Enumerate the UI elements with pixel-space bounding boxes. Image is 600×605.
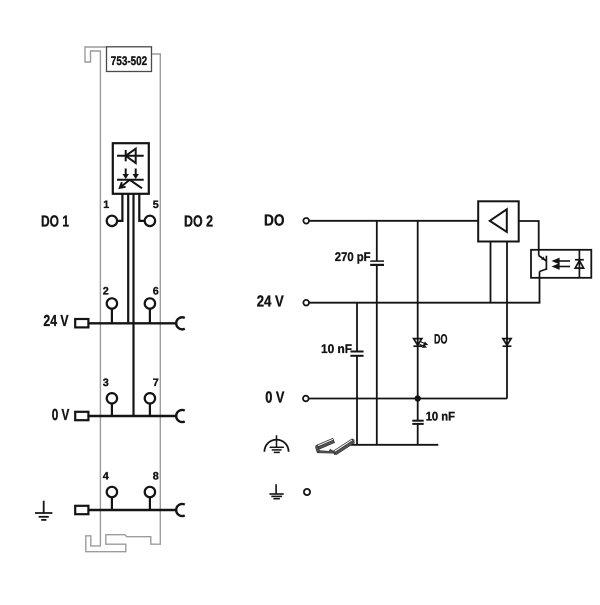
node DO terminal — [303, 218, 309, 224]
wire driver left pin to 24V — [490, 243, 492, 303]
LED DO light arrows — [420, 342, 428, 347]
driver U1 triangle — [490, 209, 507, 232]
pin 2 wire to 24V rail — [127, 194, 129, 323]
module outline 753-502 body — [85, 47, 160, 552]
terminal 1 — [103, 199, 117, 226]
24V rail connector — [176, 317, 185, 329]
svg-text:2: 2 — [103, 286, 109, 298]
svg-text:DO 2: DO 2 — [184, 213, 213, 230]
driver U1 box — [478, 201, 519, 241]
terminal 8 — [145, 471, 159, 511]
ground terminal bottom — [269, 484, 283, 499]
svg-text:5: 5 — [153, 199, 159, 211]
terminal 2 — [103, 286, 117, 324]
capacitor C1 270pF branch wire — [376, 221, 378, 261]
capacitor C2 10 nF — [350, 352, 363, 356]
wire C3 to earth rail — [417, 424, 419, 445]
svg-text:DO: DO — [264, 212, 285, 229]
0V rail lug — [75, 412, 88, 420]
svg-text:6: 6 — [153, 286, 159, 298]
svg-text:270 pF: 270 pF — [335, 250, 371, 264]
optocoupler U2 box — [531, 250, 591, 278]
rail contact symbol — [316, 438, 355, 454]
svg-text:0 V: 0 V — [265, 389, 284, 406]
svg-text:4: 4 — [103, 471, 109, 483]
svg-text:10 nF: 10 nF — [321, 342, 352, 356]
pin 4 wire to terminal 5 — [139, 194, 144, 221]
wire driver right pin down — [506, 243, 508, 399]
terminal 6 — [145, 286, 159, 324]
earth rail connector — [176, 504, 185, 516]
svg-text:DO: DO — [434, 331, 447, 346]
optocoupler light arrows — [554, 259, 570, 269]
svg-text:7: 7 — [153, 377, 159, 389]
svg-text:3: 3 — [103, 377, 109, 389]
label box 753-502 — [107, 47, 152, 72]
capacitor C3 10nF branch wire — [417, 399, 419, 421]
optocoupler phototransistor — [539, 250, 547, 278]
0V rail wire — [88, 415, 175, 417]
24V rail lug — [75, 319, 88, 327]
0V rail connector — [176, 410, 185, 422]
svg-text:0 V: 0 V — [52, 407, 70, 424]
wire 24V horizontal — [309, 302, 540, 304]
ground symbol left — [35, 501, 52, 520]
svg-text:24 V: 24 V — [257, 294, 284, 311]
svg-text:1: 1 — [103, 199, 109, 211]
LED DO status diode — [413, 339, 422, 347]
earth rail wire — [88, 509, 175, 511]
terminal 4 — [103, 471, 117, 511]
node ground terminal circle — [304, 489, 310, 495]
diode D3 freewheel — [503, 339, 512, 347]
capacitor C3 10 nF — [412, 421, 423, 424]
node 24V terminal — [303, 300, 309, 306]
svg-text:753-502: 753-502 — [111, 54, 147, 68]
svg-text:24 V: 24 V — [43, 313, 68, 330]
wire DO horizontal — [309, 220, 479, 222]
24V rail wire — [88, 322, 175, 324]
LED indicator box — [113, 143, 149, 194]
wire C1 to earth rail — [376, 265, 378, 445]
terminal 7 — [145, 377, 159, 416]
LED DO status branch wire — [417, 221, 419, 399]
LED D2 in indicator box — [117, 169, 144, 189]
terminal 3 — [103, 377, 117, 416]
pin 3 wire to 0V rail — [132, 194, 134, 416]
svg-text:DO 1: DO 1 — [41, 213, 69, 230]
optocoupler LED — [575, 250, 584, 278]
wire driver output to optocoupler — [518, 221, 538, 250]
svg-text:8: 8 — [153, 471, 159, 483]
functional earth arc symbol — [264, 435, 288, 452]
capacitor C2 10nF branch wire — [356, 303, 358, 352]
node 0V terminal — [303, 396, 309, 402]
earth rail lug — [75, 506, 88, 514]
capacitor C1 270 pF — [370, 261, 384, 265]
earth rail bottom — [351, 444, 439, 446]
wire 0V horizontal — [309, 398, 508, 400]
junction dot 0V/LED — [415, 395, 421, 401]
svg-text:10 nF: 10 nF — [426, 409, 456, 423]
wire optocoupler emitter to 24V rail — [539, 278, 541, 303]
diode D1 in indicator box — [117, 149, 144, 163]
wire C2 to earth rail — [356, 356, 358, 445]
terminal 5 — [145, 199, 159, 226]
pin 1 wire to terminal 1 — [118, 194, 123, 221]
